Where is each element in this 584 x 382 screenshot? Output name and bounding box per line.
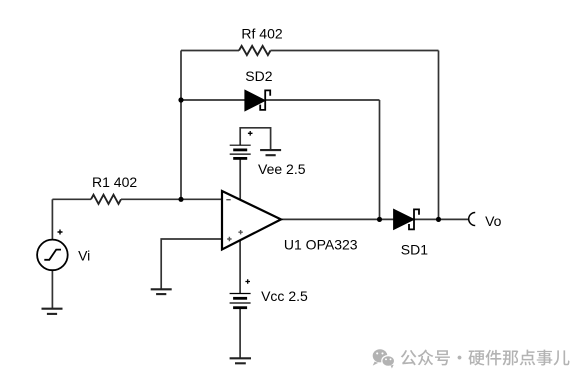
- wire: [121, 198, 222, 200]
- diode SD1: [394, 209, 419, 229]
- diode SD2: [245, 90, 270, 111]
- wire: [52, 198, 91, 200]
- node Rf output junction: [436, 217, 441, 222]
- node inverting-input junction: [178, 197, 183, 202]
- ground (non-inverting input): [151, 289, 172, 294]
- node SD2 left junction: [178, 97, 183, 102]
- op-amp U1: [222, 191, 281, 250]
- ground (Vi): [42, 309, 63, 314]
- wire: [414, 218, 469, 220]
- ground (Vcc): [230, 358, 251, 363]
- watermark wechat icon: [373, 349, 395, 368]
- svg-text:Vi: Vi: [78, 247, 90, 263]
- resistor Rf: [239, 46, 271, 55]
- svg-text:Rf 402: Rf 402: [241, 26, 282, 42]
- svg-text:SD2: SD2: [245, 68, 272, 84]
- terminal Vo: [469, 213, 476, 226]
- wire: [240, 128, 270, 150]
- svg-text:Vcc 2.5: Vcc 2.5: [261, 288, 308, 304]
- svg-text:R1 402: R1 402: [92, 174, 137, 190]
- ground (Vee): [260, 150, 281, 155]
- battery Vee: [230, 131, 253, 158]
- source Vi: [37, 230, 68, 271]
- wire: [271, 50, 439, 52]
- wire: [281, 218, 394, 220]
- svg-text:U1 OPA323: U1 OPA323: [284, 237, 358, 253]
- wire: [51, 270, 53, 309]
- svg-text:SD1: SD1: [401, 242, 428, 258]
- svg-text:Vee 2.5: Vee 2.5: [258, 161, 306, 177]
- svg-text:Vo: Vo: [485, 213, 502, 229]
- wire: [379, 100, 381, 219]
- node SD2 output junction: [377, 217, 382, 222]
- wire: [161, 239, 222, 289]
- wire: [239, 241, 241, 294]
- wire: [181, 99, 245, 101]
- wire: [239, 308, 241, 359]
- wire: [438, 51, 440, 220]
- battery Vcc: [230, 279, 251, 308]
- watermark text 公众号·硬件那点事儿: [401, 350, 570, 366]
- wire: [180, 51, 182, 200]
- wire: [181, 50, 239, 52]
- wire: [265, 99, 379, 101]
- wire: [239, 158, 241, 200]
- resistor R1: [91, 195, 121, 204]
- wire: [51, 199, 53, 239]
